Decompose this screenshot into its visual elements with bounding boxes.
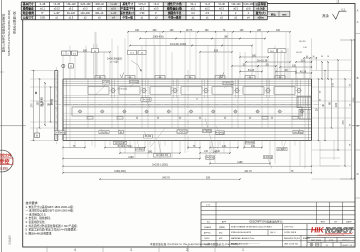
svg-text:0.05: 0.05	[40, 16, 45, 19]
svg-text:ROBOT RANGE OF 6/ROBOT-I 600-/: ROBOT RANGE OF 6/ROBOT-I 600-/ 78 RING	[231, 225, 272, 228]
svg-text:>400~1K: >400~1K	[94, 3, 104, 6]
svg-text:基本尺寸: 基本尺寸	[23, 2, 34, 6]
svg-text:COPE: DIN B: COPE: DIN B	[284, 232, 297, 234]
svg-text:50-: 50-	[207, 222, 210, 224]
svg-text:38 61: 38 61	[51, 98, 54, 105]
svg-text:平面度/平行: 平面度/平行	[121, 7, 135, 11]
svg-text:PART NAME: PART NAME	[311, 239, 322, 242]
svg-text:±1.5: ±1.5	[69, 16, 74, 19]
svg-text:345.76: 345.76	[162, 177, 170, 180]
svg-text:本图纸版权属 (hexbow to the requirem: 本图纸版权属 (hexbow to the requirements) 所有翻版…	[150, 242, 238, 246]
svg-text:1: 1	[242, 248, 244, 252]
svg-text:±0.5: ±0.5	[97, 8, 102, 11]
svg-text:140: 140	[222, 145, 227, 148]
svg-text:380: 380	[148, 150, 153, 153]
svg-text:线性尺寸/角: 线性尺寸/角	[168, 2, 182, 6]
svg-text:>0~30: >0~30	[53, 3, 60, 6]
svg-text:REV: REV	[321, 222, 326, 224]
svg-text:40.38: 40.38	[300, 70, 307, 73]
svg-text:16×76: 16×76	[186, 29, 193, 32]
svg-text:1180: 1180	[237, 161, 243, 164]
svg-text:APF: APF	[222, 221, 227, 224]
svg-text:⊥: ⊥	[63, 52, 65, 55]
svg-text:53.26: 53.26	[248, 69, 255, 72]
svg-text:1. 未注尺寸公差按GB/T-1804 2000-m级;: 1. 未注尺寸公差按GB/T-1804 2000-m级;	[26, 205, 74, 209]
svg-text:HANGZHOU HIKROBOT CO.,LTD.: HANGZHOU HIKROBOT CO.,LTD.	[317, 234, 345, 237]
svg-text:DRAWN: DRAWN	[204, 226, 212, 229]
svg-text:SCBOTY-CLZT2TEX-JR(ICBU-03-064: SCBOTY-CLZT2TEX-JR(ICBU-03-064)	[7, 10, 11, 56]
svg-text:170: 170	[342, 120, 345, 125]
svg-text:20.5: 20.5	[301, 59, 306, 62]
svg-text:4. 外表面经过防表面处理机器人 607产品级;: 4. 外表面经过防表面处理机器人 607产品级;	[26, 224, 78, 228]
svg-text:其余: 其余	[322, 13, 329, 18]
svg-text:341.76: 341.76	[244, 170, 252, 173]
svg-text:ROBOT: ROBOT	[325, 226, 354, 235]
svg-text:mm: mm	[282, 13, 286, 16]
svg-text:>3~6: >3~6	[153, 3, 159, 6]
svg-text:基准要素(大): 基准要素(大)	[120, 11, 135, 15]
svg-text:±0.2: ±0.2	[69, 8, 74, 11]
svg-text:>0.5~3: >0.5~3	[138, 3, 146, 6]
svg-text:更改标记数量分区: 更改标记数量分区	[12, 11, 16, 34]
svg-text:MATERIAL: AL6061-T5.6+: MATERIAL: AL6061-T5.6+	[231, 237, 255, 240]
svg-text:DATE: DATE	[346, 221, 352, 224]
svg-text:±0.3: ±0.3	[83, 8, 88, 11]
svg-text:1180(-600): 1180(-600)	[152, 37, 163, 39]
svg-text:1°30: 1°30	[139, 12, 145, 15]
svg-text:激光(大): 激光(大)	[256, 11, 266, 15]
svg-text:8.6 M9: 8.6 M9	[100, 132, 108, 134]
svg-text:>30~120: >30~120	[231, 3, 241, 6]
svg-text:±0.2: ±0.2	[140, 8, 145, 11]
svg-text:WEIGHT(KTS) KG: WEIGHT(KTS) KG	[284, 238, 300, 240]
svg-text:±0.2: ±0.2	[205, 8, 210, 11]
svg-text:400~1K: 400~1K	[95, 12, 104, 15]
svg-text:一.未注形位公差按GB/T-1184-2000 H级;: 一.未注形位公差按GB/T-1184-2000 H级;	[26, 209, 74, 213]
svg-text:6. 图示6×M6对称要求.: 6. 图示6×M6对称要求.	[26, 231, 53, 235]
svg-text:SIZE: SIZE	[329, 240, 334, 242]
svg-text:受控文件: 受控文件	[0, 152, 12, 157]
svg-text:P312-02: P312-02	[342, 240, 349, 242]
svg-text:±0.3: ±0.3	[219, 8, 224, 11]
svg-text:±0.8: ±0.8	[246, 8, 251, 11]
svg-text:B: B	[357, 76, 359, 80]
svg-text:±0.1: ±0.1	[40, 8, 45, 11]
svg-text:5×230 (-1150): 5×230 (-1150)	[152, 164, 168, 167]
svg-text:>6~30: >6~30	[218, 3, 225, 6]
svg-text:APPVD: APPVD	[204, 232, 211, 235]
svg-text:中等m级按: 中等m级按	[168, 15, 181, 19]
svg-text:1160: 1160	[128, 156, 134, 159]
svg-text:倒圆角半径: 倒圆角半径	[167, 11, 182, 15]
svg-text:12×140(-60): 12×140(-60)	[156, 154, 169, 157]
svg-text:±0.8: ±0.8	[111, 8, 116, 11]
svg-text:HIK: HIK	[310, 226, 325, 235]
svg-text:>1~6: >1~6	[205, 3, 211, 6]
svg-text:1160(-600): 1160(-600)	[114, 170, 126, 173]
svg-text:存档编号: 存档编号	[8, 235, 12, 245]
svg-text:170: 170	[31, 103, 34, 108]
svg-text:公差寸寸: 公差寸寸	[23, 15, 34, 19]
svg-text:4: 4	[74, 248, 76, 252]
svg-text:SHEET 1 OF 1: SHEET 1 OF 1	[342, 245, 353, 247]
svg-text:C: C	[357, 124, 359, 128]
svg-text:QTY PCS:: QTY PCS:	[284, 226, 294, 228]
svg-text:极限偏差: 极限偏差	[23, 7, 34, 11]
svg-text:D: D	[357, 172, 359, 176]
svg-text:±0~1: ±0~1	[190, 3, 196, 6]
svg-text:A: A	[357, 9, 359, 13]
svg-text:29 38 61: 29 38 61	[41, 97, 44, 107]
svg-text:3. 表面喷砂氧化;: 3. 表面喷砂氧化;	[26, 220, 46, 224]
svg-text:2: 2	[186, 248, 188, 252]
svg-text:ICBU-03-06-04-60/78: ICBU-03-06-04-60/78	[231, 232, 252, 234]
svg-text:5°: 5°	[41, 12, 43, 15]
svg-text:极限偏差(线): 极限偏差(线)	[167, 7, 182, 11]
svg-text:>30~120: >30~120	[66, 3, 76, 6]
svg-text:>120~400: >120~400	[243, 3, 254, 6]
svg-text:1~30°: 1~30°	[54, 12, 60, 15]
svg-text:FINISH:(ANODIZE)────────: FINISH:(ANODIZE)────────	[231, 243, 260, 246]
svg-text:基准尺寸: 基准尺寸	[122, 2, 133, 6]
svg-text:SHARE: SHARE	[204, 243, 211, 246]
svg-text:UNIT CUTS: NO.: UNIT CUTS: NO.	[284, 244, 299, 246]
svg-text:±0.1: ±0.1	[191, 8, 196, 11]
svg-text:130: 130	[37, 101, 40, 106]
svg-text:528: 528	[214, 49, 219, 52]
svg-text:单位: 单位	[271, 12, 276, 16]
svg-text:66.38: 66.38	[296, 52, 302, 54]
svg-text:DESCRIPTION:描述(更改单号): DESCRIPTION:描述(更改单号)	[250, 220, 283, 224]
svg-text:公差等级: 公差等级	[255, 2, 266, 6]
svg-text:140: 140	[251, 145, 256, 148]
svg-text:120~400: 120~400	[80, 12, 90, 15]
svg-text:>1~2K: >1~2K	[110, 3, 117, 6]
svg-text:528: 528	[206, 176, 211, 179]
svg-text:30~120: 30~120	[67, 12, 76, 15]
svg-text:0~48: 0~48	[40, 3, 46, 6]
svg-text:角度/倒角: 角度/倒角	[23, 11, 35, 15]
svg-text:>120~400: >120~400	[80, 3, 91, 6]
svg-text:一.未注倒角C0.5;: 一.未注倒角C0.5;	[26, 212, 47, 216]
svg-text:受控: 受控	[0, 158, 10, 166]
svg-text:±0.5: ±0.5	[233, 8, 238, 11]
svg-text:2. 去毛刺、锐角倒钝;: 2. 去毛刺、锐角倒钝;	[26, 216, 51, 220]
svg-text:±0.5: ±0.5	[154, 8, 159, 11]
svg-text:1~2K: 1~2K	[111, 12, 117, 15]
svg-text:QG: 4: QG: 4	[270, 232, 276, 234]
svg-text:16×16.38: 16×16.38	[257, 59, 268, 62]
svg-text:2×M4: 2×M4	[103, 81, 110, 84]
svg-text:±0.5/走: ±0.5/走	[256, 7, 265, 11]
svg-text:±2/m: ±2/m	[258, 15, 265, 19]
svg-text:日期检: 日期检	[0, 167, 8, 171]
svg-text:B: B	[36, 133, 38, 137]
svg-text:CHKD: CHKD	[204, 238, 210, 240]
svg-text:A: A	[357, 20, 359, 24]
svg-text:3: 3	[130, 248, 132, 252]
svg-text:±0.15: ±0.15	[54, 8, 61, 11]
svg-text:130: 130	[335, 102, 338, 107]
svg-text:技术要求:: 技术要求:	[26, 200, 39, 205]
svg-text:80 M9: 80 M9	[145, 136, 152, 138]
svg-text:1°: 1°	[155, 12, 157, 15]
svg-text:最新入库单号-按装配车间审批: 最新入库单号-按装配车间审批	[1, 14, 6, 53]
svg-text:5. 机加工定位面-机床工作台0.4-6等级要求; ·: 5. 机加工定位面-机床工作台0.4-6等级要求; ·	[26, 228, 79, 232]
svg-text:160.38: 160.38	[299, 41, 306, 43]
svg-text:14×140(-1940): 14×140(-1940)	[170, 43, 187, 46]
svg-text:380: 380	[83, 49, 88, 52]
svg-text:中等m级: 中等m级	[122, 15, 133, 19]
